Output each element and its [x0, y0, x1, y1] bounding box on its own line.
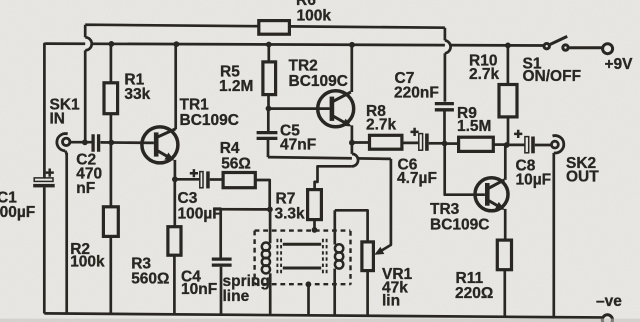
wire: mixing node to TR3 base — [445, 144, 485, 195]
wire: bottom ground rail — [44, 313, 602, 317]
node: rail junction R5 — [266, 42, 272, 48]
resistor R5 — [263, 45, 276, 109]
transducer coil left — [262, 209, 270, 314]
node: TR1 emitter junction — [172, 176, 178, 182]
wire: R7 to case node — [313, 220, 316, 230]
svg-text:line: line — [223, 288, 250, 305]
potentiometer VR1 — [362, 242, 374, 271]
transducer coil right — [335, 210, 344, 314]
wire: SK2 ground drop — [552, 153, 555, 317]
svg-text:33k: 33k — [124, 86, 150, 103]
capacitor C5 — [257, 109, 278, 158]
VR1 wiper arrowhead — [374, 247, 384, 255]
svg-text:100µF: 100µF — [0, 204, 35, 221]
spring top — [283, 243, 321, 246]
paper shading bottom edge — [0, 319, 640, 322]
svg-text:3.3k: 3.3k — [275, 205, 306, 222]
svg-text:4.7µF: 4.7µF — [397, 170, 437, 187]
resistor R8 — [352, 135, 419, 149]
node: TR2 emitter junction — [349, 140, 355, 146]
capacitor C2 — [93, 134, 99, 151]
terminal -ve — [602, 315, 612, 322]
svg-text:220Ω: 220Ω — [455, 285, 493, 302]
resistor R11 — [497, 240, 511, 316]
svg-text:100k: 100k — [297, 8, 332, 25]
wire: C4 node row — [213, 208, 270, 211]
capacitor C8 — [508, 130, 552, 154]
svg-text:nF: nF — [76, 180, 95, 197]
switch S1 — [544, 36, 603, 50]
svg-text:BC109C: BC109C — [289, 73, 348, 90]
wire: TR1 collector to rail — [174, 44, 177, 129]
node: spring case ground — [306, 281, 312, 287]
transistor TR2 — [318, 91, 354, 127]
capacitor C1 — [33, 169, 55, 188]
socket SK2 — [552, 136, 564, 153]
resistor R9 — [445, 137, 506, 151]
wire: case ground drop — [307, 284, 310, 315]
wire: hop to C7 top plate — [444, 53, 447, 101]
wire: VR1 to ground rail — [366, 271, 369, 316]
wire: C7 to mixing node — [443, 112, 446, 144]
spring line core dashes left — [277, 239, 281, 276]
wire: feed vertical down to input node — [84, 50, 87, 142]
wire: base node to TR2 — [269, 107, 330, 110]
wire: TR2 collector to rail — [350, 45, 353, 92]
socket SK1 — [57, 134, 70, 155]
resistor R10 — [499, 45, 517, 145]
svg-text:100µF: 100µF — [178, 205, 222, 222]
svg-text:2.7k: 2.7k — [469, 66, 500, 83]
wire: TR1 emitter down — [174, 160, 177, 179]
wire: +9V supply rail — [47, 44, 545, 46]
svg-text:100k: 100k — [70, 254, 105, 271]
svg-text:TR3: TR3 — [430, 201, 460, 218]
wire: SK1 tip to C2 — [70, 141, 92, 144]
wire: TR2 emitter down — [351, 125, 354, 142]
resistor R1 — [104, 44, 118, 142]
resistor R2 — [103, 143, 118, 314]
svg-text:10nF: 10nF — [181, 281, 217, 298]
wire hop: emitter branch over C5 run — [352, 154, 358, 166]
wire: SK1 ground drop — [65, 153, 68, 313]
wire: C2 to TR1 base — [101, 141, 154, 144]
capacitor C4 — [212, 209, 232, 314]
node: mixing node — [442, 141, 448, 147]
svg-text:220nF: 220nF — [394, 85, 439, 102]
wire hop: C7 branch over +9V rail — [445, 40, 451, 53]
wire: emitter node to C3 — [175, 178, 200, 181]
spring line core dashes right — [323, 239, 327, 276]
wire: VR1 wiper feed from C5 line — [381, 159, 391, 251]
node: rail junction TR2 collector — [349, 42, 355, 48]
wire: C1 to ground rail — [43, 187, 46, 313]
svg-text:OUT: OUT — [566, 168, 599, 185]
svg-text:IN: IN — [50, 110, 66, 127]
wire: coil top to VR1 top — [335, 210, 368, 242]
wire: C3 to R4 — [210, 178, 223, 181]
svg-text:BC109C: BC109C — [430, 217, 489, 234]
svg-text:1.5M: 1.5M — [457, 118, 491, 135]
svg-text:lin: lin — [382, 292, 400, 309]
wire: left supply drop to C1 — [44, 44, 47, 178]
wire: hop to R7 staircase — [315, 166, 352, 189]
capacitor C3 — [190, 169, 210, 188]
wire: dry feed top wire (input node to R6) — [85, 25, 259, 38]
svg-text:56Ω: 56Ω — [221, 156, 251, 173]
capacitor C7 — [435, 104, 454, 110]
spring line dashed enclosure — [255, 231, 351, 285]
wire hop: feed wire over +9V rail — [85, 37, 92, 50]
node: R1 R2 base junction — [108, 140, 114, 146]
svg-text:560Ω: 560Ω — [131, 271, 169, 288]
wire: emitter node down to hop — [351, 143, 354, 154]
transistor TR1 — [142, 127, 178, 163]
wire: TR3 emitter down — [504, 209, 507, 240]
node: rail junction TR1 collector — [174, 41, 180, 47]
wire: R6 to C7 branch — [289, 26, 445, 40]
spring bottom — [283, 267, 321, 270]
node: rail junction R10 — [505, 43, 511, 49]
svg-text:47nF: 47nF — [280, 137, 316, 154]
resistor R6 — [259, 21, 290, 35]
svg-text:+9V: +9V — [605, 56, 634, 73]
capacitor C6 — [411, 128, 444, 151]
node: TR3 collector junction — [504, 142, 510, 148]
node: rail junction R1 — [109, 41, 115, 47]
svg-text:–ve: –ve — [596, 293, 622, 310]
wire: R4 to coil node — [255, 180, 269, 209]
node: R4 C4 coil junction — [267, 207, 273, 213]
node: TR2 base junction — [266, 106, 272, 112]
svg-text:1.2M: 1.2M — [219, 78, 253, 95]
transistor TR3 — [475, 178, 508, 211]
resistor R7 — [308, 190, 322, 220]
svg-text:ON/OFF: ON/OFF — [523, 68, 582, 85]
svg-text:10µF: 10µF — [516, 171, 552, 188]
svg-text:2.7k: 2.7k — [366, 116, 397, 133]
wire: C5 to VR1 wiper run — [268, 157, 391, 159]
svg-text:BC109C: BC109C — [180, 112, 239, 129]
node: R7 case junction — [312, 227, 318, 233]
terminal +9V — [603, 44, 613, 54]
svg-text:TR1: TR1 — [180, 97, 210, 114]
wire: TR3 collector up — [504, 145, 507, 180]
resistor R3 — [168, 179, 181, 313]
resistor R4 — [223, 173, 255, 188]
node: input node — [82, 139, 88, 145]
